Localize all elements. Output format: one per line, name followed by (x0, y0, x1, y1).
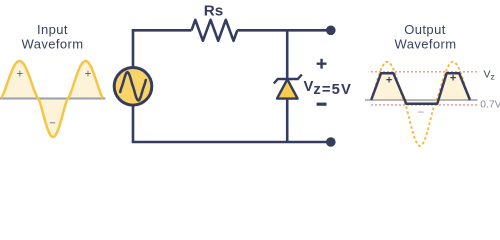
svg-text:Waveform: Waveform (22, 37, 84, 52)
svg-text:+: + (16, 69, 23, 81)
svg-text:Output: Output (404, 22, 445, 37)
input waveform fill (1, 61, 103, 137)
input waveform baseline (0, 98, 105, 100)
output clipped waveform (371, 73, 470, 104)
input waveform sine curve (1, 61, 103, 137)
svg-text:+: + (85, 69, 92, 81)
svg-text:Rs: Rs (204, 3, 223, 20)
dashed level line Vz (371, 71, 479, 73)
label minus for Vz (317, 103, 327, 106)
zener diode cathode bar (274, 75, 302, 84)
dashed level line 0.7V (371, 104, 479, 106)
terminal dot bottom right (326, 137, 336, 147)
output waveform baseline (365, 99, 478, 101)
terminal dot top right (326, 26, 336, 36)
zener diode triangle (277, 79, 298, 98)
svg-text:Vz: Vz (484, 69, 495, 82)
svg-text:+: + (450, 72, 456, 84)
svg-text:−: − (49, 118, 55, 130)
label plus for Vz (317, 59, 327, 69)
wire bottom rail (132, 141, 327, 144)
output dashed original sine (371, 62, 470, 146)
label Output Waveform (395, 22, 457, 51)
ac source V1 (114, 68, 152, 106)
wire top rail right of resistor (237, 29, 327, 32)
svg-text:−: − (417, 105, 424, 119)
label Input Waveform (22, 22, 84, 51)
output waveform fill (371, 73, 470, 104)
wire zener branch upper (286, 30, 289, 79)
wire left vertical (132, 30, 135, 142)
resistor Rs zigzag (192, 20, 238, 41)
svg-text:Waveform: Waveform (395, 37, 457, 52)
svg-text:+: + (386, 74, 392, 86)
wire zener branch lower (286, 98, 289, 142)
wire top rail left of resistor (132, 29, 192, 32)
svg-text:Vz=5V: Vz=5V (304, 79, 352, 98)
svg-text:Input: Input (37, 22, 68, 37)
svg-text:0.7V: 0.7V (480, 99, 500, 110)
